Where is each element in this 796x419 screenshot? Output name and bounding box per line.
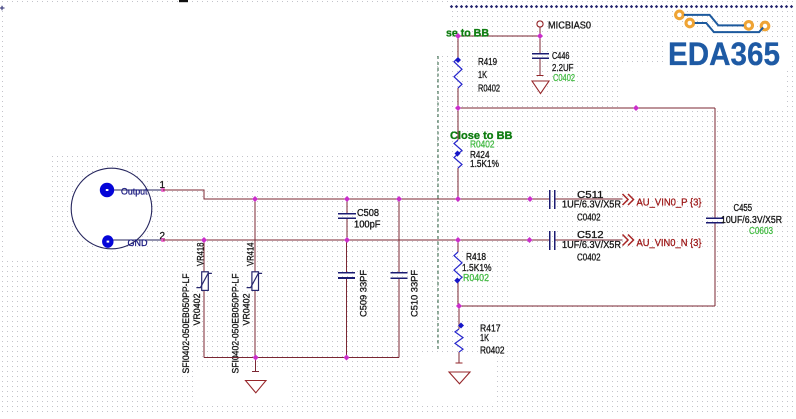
wire se-to-BB horizontal — [458, 35, 540, 37]
svg-text:SFI0402-050EB050PP-LF: SFI0402-050EB050PP-LF — [231, 273, 241, 373]
varistor VR418 — [181, 240, 212, 374]
svg-text:C0402: C0402 — [553, 73, 575, 84]
port AU_VIN0_N — [623, 235, 702, 250]
wire bottom return — [459, 305, 715, 307]
svg-text:C0402: C0402 — [577, 213, 601, 224]
svg-text:R418: R418 — [466, 252, 486, 263]
EDA365 logo pads — [676, 11, 769, 30]
resistor R417 — [455, 306, 505, 363]
svg-text:AU_VIN0_N {3}: AU_VIN0_N {3} — [637, 237, 702, 249]
wire right rail — [714, 108, 716, 306]
power pin MICBIAS0 — [537, 20, 591, 31]
wire MICBIAS0 vertical — [539, 27, 541, 76]
connector body (microphone jack) — [71, 168, 152, 249]
svg-text:MICBIAS0: MICBIAS0 — [548, 20, 591, 31]
capacitor C508 — [338, 199, 381, 240]
capacitor C509 — [338, 240, 370, 358]
svg-text:C509 33PF: C509 33PF — [359, 270, 370, 317]
origin cross marker — [0, 6, 5, 11]
svg-text:C455: C455 — [734, 203, 753, 214]
pin end marker pin1 — [161, 188, 165, 192]
svg-text:C510 33PF: C510 33PF — [410, 270, 421, 317]
svg-text:1UF/6.3V/X5R: 1UF/6.3V/X5R — [562, 200, 621, 211]
svg-text:R419: R419 — [478, 57, 497, 68]
svg-text:1UF/6.3V/X5R: 1UF/6.3V/X5R — [562, 240, 621, 251]
svg-text:AU_VIN0_P {3}: AU_VIN0_P {3} — [637, 197, 702, 209]
EDA365 logo text — [668, 36, 780, 72]
ground for rail — [246, 358, 267, 393]
partition dashed line (green) — [437, 56, 439, 349]
wire bottom ground rail — [204, 357, 399, 359]
capacitor C511 — [550, 190, 621, 224]
capacitor C455 — [706, 203, 782, 237]
label Close to BB — [450, 130, 513, 142]
svg-text:se to BB: se to BB — [446, 28, 489, 40]
svg-text:VR418: VR418 — [196, 243, 207, 267]
svg-text:SFI0402-050EB050PP-LF: SFI0402-050EB050PP-LF — [181, 273, 191, 373]
top diamond marker row — [450, 5, 793, 8]
svg-text:R0402: R0402 — [478, 83, 500, 94]
label se to BB — [446, 28, 489, 40]
pin end marker pin2 — [161, 238, 165, 242]
resistor R424 — [454, 108, 499, 199]
svg-text:1K: 1K — [478, 70, 487, 81]
resistor R418 — [454, 240, 492, 306]
ground for C446 — [532, 76, 549, 94]
capacitor C510 — [391, 199, 421, 358]
wire output net — [163, 190, 623, 199]
svg-text:R0402: R0402 — [463, 273, 489, 284]
svg-text:1.5K1%: 1.5K1% — [470, 159, 499, 170]
svg-text:10UF/6.3V/X5R: 10UF/6.3V/X5R — [721, 215, 782, 226]
capacitor C512 — [550, 230, 621, 264]
svg-text:EDA365: EDA365 — [668, 36, 780, 72]
port AU_VIN0_P — [623, 194, 702, 209]
svg-text:VR0402: VR0402 — [242, 294, 252, 326]
resistor R419 — [454, 36, 500, 108]
svg-text:C0603: C0603 — [749, 226, 773, 237]
EDA365 logo traces — [684, 15, 763, 32]
svg-text:VR414: VR414 — [246, 243, 257, 267]
connector pin 2 GND — [102, 231, 165, 249]
svg-text:Output: Output — [121, 186, 148, 197]
svg-text:R0402: R0402 — [480, 346, 505, 357]
svg-text:GND: GND — [128, 238, 148, 249]
top edge marker bar — [179, 0, 188, 2]
svg-text:VR0402: VR0402 — [192, 294, 202, 326]
svg-text:1K: 1K — [480, 333, 489, 344]
wire bus top horizontal — [458, 107, 715, 109]
varistor VR414 — [231, 199, 262, 374]
connector pin 1 Output — [100, 180, 166, 197]
svg-text:100pF: 100pF — [354, 219, 381, 230]
capacitor C446 — [532, 51, 575, 84]
svg-text:C446: C446 — [552, 51, 570, 62]
ground for R417 — [449, 363, 470, 384]
svg-text:C0402: C0402 — [577, 253, 601, 264]
svg-text:C508: C508 — [357, 208, 379, 219]
wire gnd net — [163, 239, 623, 241]
